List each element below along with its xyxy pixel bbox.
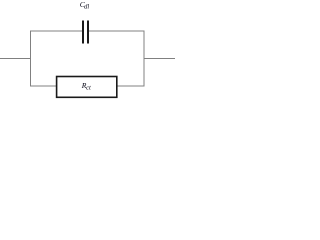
wire right vertical branch [143,31,145,87]
wire top branch right segment [89,30,145,32]
resistor Rct box [57,77,117,98]
wire bottom branch right segment [118,85,145,87]
wire bottom branch left segment [30,85,56,87]
wire left vertical branch [30,31,32,87]
svg-text:ct: ct [86,85,91,92]
wire right lead [144,58,175,60]
svg-text:dl: dl [84,3,89,10]
capacitor Cdl plates [82,21,89,44]
wire left lead [0,58,31,60]
wire top branch left segment [30,30,82,32]
